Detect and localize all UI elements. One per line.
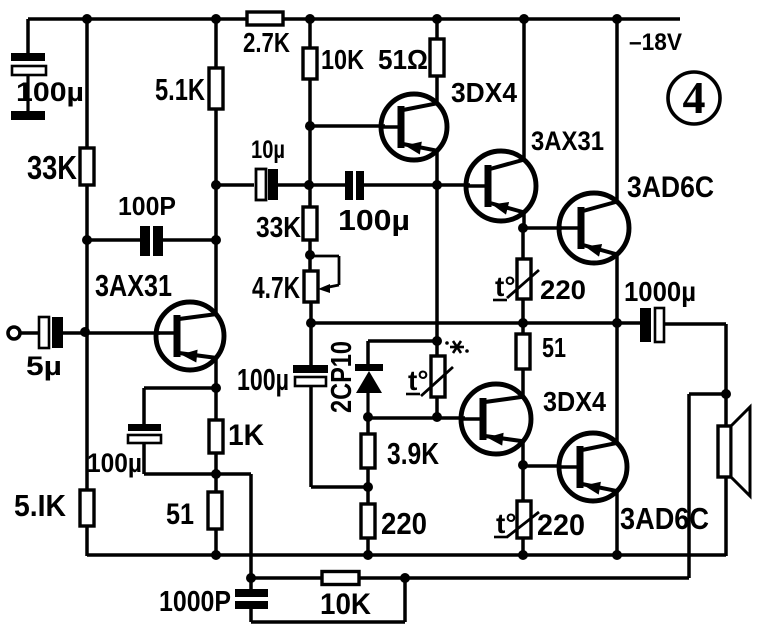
wire base node down (crosses mid rail) <box>435 185 439 356</box>
capacitor C 100µ (interstage coupling) <box>345 171 364 200</box>
svg-text:3AX31: 3AX31 <box>95 268 172 303</box>
junction mid rail / thermistor <box>518 318 528 328</box>
junction bottom rail g4 <box>612 550 622 560</box>
wire bottom ground rail <box>87 553 726 557</box>
transistor Q4 3AD6C (upper output) <box>559 193 629 263</box>
svg-text:3AX31: 3AX31 <box>531 126 604 156</box>
capacitor C 100µ (lower mid) <box>293 365 328 386</box>
wire mid rail (output bus) <box>311 321 641 325</box>
resistor R 51Ω <box>430 39 444 76</box>
wire Q5 emitter down <box>521 441 525 469</box>
svg-text:2CP10: 2CP10 <box>326 341 358 413</box>
svg-text:2.7K: 2.7K <box>243 27 290 58</box>
wire down to speaker node <box>724 324 728 394</box>
resistor R 3.9K <box>361 434 375 468</box>
junction feedback node <box>246 573 256 583</box>
wire R 220 to bottom rail <box>366 538 370 556</box>
wire C 1000P bottom loop <box>251 620 405 624</box>
wire Q1 emitter down <box>214 357 218 420</box>
svg-text:5.IK: 5.IK <box>14 488 67 523</box>
svg-text:1K: 1K <box>228 419 264 452</box>
wire rail to Q4 collector <box>615 19 619 203</box>
capacitor C 100P <box>140 226 163 256</box>
wire mid rail to R 51 (lower) <box>521 323 525 334</box>
svg-text:t°: t° <box>496 508 517 539</box>
svg-text:t°: t° <box>408 365 429 396</box>
svg-text:1000P: 1000P <box>159 586 231 618</box>
junction mid rail / output node <box>612 318 622 328</box>
junction 1K/51/feedback node <box>211 469 221 479</box>
svg-text:3AD6C: 3AD6C <box>620 501 709 536</box>
wire Q3 emitter down <box>522 212 526 232</box>
asterisk mark * <box>445 341 469 353</box>
junction node rail E <box>519 14 529 24</box>
wire 1K to 51 node <box>214 453 218 492</box>
capacitor C 1000P (feedback) <box>235 589 268 609</box>
wire C 1000P bottom down <box>249 609 253 622</box>
wire C 100µ bypass down <box>142 443 146 474</box>
svg-text:220: 220 <box>540 275 586 305</box>
junction feedback/cap node <box>400 573 410 583</box>
resistor R 1K <box>209 420 223 453</box>
resistor R 33K (mid) <box>303 207 317 240</box>
wire diode link horizontal <box>368 339 437 343</box>
junction node rail B <box>211 14 221 24</box>
wire node to R 3.9K <box>366 418 370 434</box>
svg-text:220: 220 <box>537 509 585 542</box>
wire Rt1 to mid rail <box>521 299 525 323</box>
wire C 1000µ to speaker corner <box>664 322 726 326</box>
potentiometer R 4.7K (rheostat) <box>304 256 339 302</box>
svg-text:100µ: 100µ <box>16 77 84 107</box>
wire Q4 emitter to output node <box>615 254 619 323</box>
wire top -18V rail right segment <box>283 17 680 21</box>
wire collector node to C 10µ <box>216 183 254 187</box>
svg-text:4.7K: 4.7K <box>252 270 300 305</box>
junction Q1 emitter / bypass node <box>211 383 221 393</box>
junction base-line thermistor node <box>432 412 442 422</box>
wire output node to Q6 collector <box>615 323 619 444</box>
svg-text:10K: 10K <box>321 44 364 75</box>
junction collector node / 10µ line <box>211 180 221 190</box>
svg-text:51: 51 <box>542 332 566 363</box>
wire feedback line right <box>359 576 689 580</box>
wire Rt3 to bottom rail <box>521 538 525 556</box>
junction bottom rail g1 <box>211 550 221 560</box>
wire loop up to feedback node <box>403 578 407 622</box>
input terminal <box>8 327 20 339</box>
svg-text:51: 51 <box>166 498 194 531</box>
capacitor C 1000µ (output) <box>640 308 664 342</box>
wire top -18V rail left segment <box>28 17 247 21</box>
resistor R 10K (feedback) <box>322 572 359 585</box>
thermistor Rt 220 (upper) <box>493 259 539 302</box>
wire 33K node to C 100P <box>87 238 141 242</box>
transistor Q6 3AD6C (lower output) <box>559 433 627 501</box>
svg-text:100µ: 100µ <box>338 205 410 237</box>
capacitor C1 100µ (supply filter) <box>11 53 46 112</box>
junction 33K/4.7K wiper node <box>305 250 315 260</box>
speaker LS <box>718 407 750 496</box>
wire Q6 emitter to bottom rail <box>615 491 619 556</box>
junction 3.9K/220/100µ node <box>363 482 373 492</box>
wire base Q4 <box>522 226 562 230</box>
wire 5.1K to bottom rail <box>85 526 89 556</box>
svg-text:10µ: 10µ <box>251 136 285 164</box>
junction Q3 base node <box>432 180 442 190</box>
wire 3.9K to node <box>366 468 370 487</box>
junction node rail C <box>305 14 315 24</box>
wire base line Q5 <box>368 416 465 420</box>
capacitor C 5µ (input coupling) <box>39 317 63 348</box>
junction input/divider node <box>80 327 90 337</box>
wire Q5 emitter node to Rt3 <box>521 465 525 501</box>
junction Q2 base node <box>305 121 315 131</box>
wire rail to R 51Ω <box>435 19 439 39</box>
transistor Q1 3AX31 (input stage) <box>156 302 224 370</box>
wire node to R 5.1K lower-left <box>85 331 89 490</box>
svg-text:3.9K: 3.9K <box>387 436 439 471</box>
junction mid rail at 4.7K corner <box>306 318 316 328</box>
wire down to C 100µ bypass <box>142 388 146 425</box>
junction bottom rail g2 <box>363 550 373 560</box>
svg-text:220: 220 <box>381 506 427 541</box>
junction base-line left node <box>363 412 373 422</box>
wire input terminal to C 5µ <box>20 331 40 335</box>
wire R51 to bottom rail <box>214 529 218 556</box>
wire rail to Q3 collector <box>522 19 526 161</box>
junction bottom rail g3 <box>518 550 528 560</box>
svg-text:3DX4: 3DX4 <box>543 386 606 417</box>
wire R 5.1K to Q1 collector <box>214 109 218 313</box>
wire C 5µ to base Q1 <box>63 331 160 335</box>
wire feedback tap vertical (crosses ground rail) <box>249 474 253 590</box>
wire feedback vertical right <box>687 394 691 578</box>
svg-text:100µ: 100µ <box>237 362 289 397</box>
resistor R 10K (bias) <box>303 48 317 79</box>
wire C 100P to collector line <box>158 238 216 242</box>
svg-text:100P: 100P <box>118 191 176 221</box>
wire thermistor to base line Q5 <box>435 397 439 418</box>
transistor Q3 3AX31 (driver) <box>466 151 536 221</box>
diode D 2CP10 <box>355 364 383 418</box>
resistor R 33K (left) <box>80 148 94 185</box>
junction node rail A <box>82 14 92 24</box>
junction speaker node <box>721 389 731 399</box>
svg-text:3AD6C: 3AD6C <box>627 171 714 204</box>
junction node rail D <box>432 14 442 24</box>
wire emitter node to Rt1 <box>521 228 525 259</box>
junction node rail F <box>612 14 622 24</box>
wire feedback line left <box>251 576 322 580</box>
svg-text:100µ: 100µ <box>87 448 142 478</box>
junction Q5 emitter node <box>518 460 528 470</box>
capacitor C 100µ (emitter bypass) <box>128 424 161 443</box>
wire rail to R 5.1K upper <box>214 19 218 68</box>
svg-text:1000µ: 1000µ <box>624 276 696 307</box>
transistor Q5 3DX4 (lower driver) <box>461 384 531 454</box>
svg-text:3DX4: 3DX4 <box>451 77 517 108</box>
wire rail to C1 <box>26 19 30 54</box>
resistor R 51 (emitter) <box>208 492 222 529</box>
capacitor C 10µ <box>256 169 278 200</box>
wire rail to R 33K <box>85 19 89 148</box>
wire rail to R 10K <box>308 19 312 48</box>
svg-text:10K: 10K <box>320 588 371 621</box>
svg-text:5µ: 5µ <box>26 351 62 381</box>
wire base Q6 <box>523 464 561 468</box>
wire speaker to bottom rail <box>724 477 728 556</box>
wire mid rail to C 100µ (bootstrap) <box>309 323 313 366</box>
resistor R 51 (lower) <box>516 334 530 369</box>
resistor R 2.7K (in rail) <box>247 12 283 25</box>
junction diode link node <box>432 336 442 346</box>
svg-text:33K: 33K <box>27 149 77 186</box>
ground bar under C1 <box>11 111 45 120</box>
svg-text:51Ω: 51Ω <box>378 44 428 75</box>
wire base Q2 3DX4 <box>310 124 385 128</box>
wire C 10µ to node 33K <box>278 183 345 187</box>
resistor R 5.1K (lower left) <box>80 490 94 526</box>
svg-text:5.1K: 5.1K <box>155 72 205 107</box>
svg-text:t°: t° <box>495 271 516 302</box>
wire bypass bottom to node <box>144 472 251 476</box>
junction node 100P right <box>211 235 221 245</box>
thermistor Rt 220 (starred) <box>406 356 453 397</box>
svg-text:33K: 33K <box>256 212 301 244</box>
junction node 100P left <box>82 235 92 245</box>
wire R 51 to Q5 collector <box>521 369 525 398</box>
wire speaker node down <box>724 394 728 427</box>
junction 10K/33K node <box>304 180 314 190</box>
wire C 100µ corner to 3.9K node <box>311 485 368 489</box>
thermistor Rt 220 (lower) <box>494 501 539 539</box>
wire node to R 220 (lower mid) <box>366 487 370 504</box>
wire 33K to node 100P <box>85 185 89 331</box>
transistor Q2 3DX4 (pre-driver) <box>381 94 447 160</box>
wire diode cathode up <box>366 341 370 366</box>
wire R 51Ω to Q2 collector <box>435 76 439 104</box>
wire 4.7K to mid rail <box>309 302 313 325</box>
wire Q2 emitter to base node <box>435 151 439 185</box>
wire 10K to 33K <box>308 79 312 207</box>
wire C 100µ down <box>309 386 313 487</box>
svg-text:4: 4 <box>683 72 706 123</box>
wire 33K to 4.7K <box>308 240 312 271</box>
wire C 100µ to base Q3 <box>364 183 470 187</box>
wire emitter node to C 100µ bypass <box>144 386 216 390</box>
resistor R 5.1K (upper) <box>209 68 223 109</box>
circled figure number 4 <box>668 72 720 124</box>
svg-text:–18V: –18V <box>629 29 682 56</box>
junction Q3 emitter node <box>518 223 528 233</box>
wire speaker node to feedback corner <box>689 392 726 396</box>
resistor R 220 (lower mid) <box>361 504 375 538</box>
